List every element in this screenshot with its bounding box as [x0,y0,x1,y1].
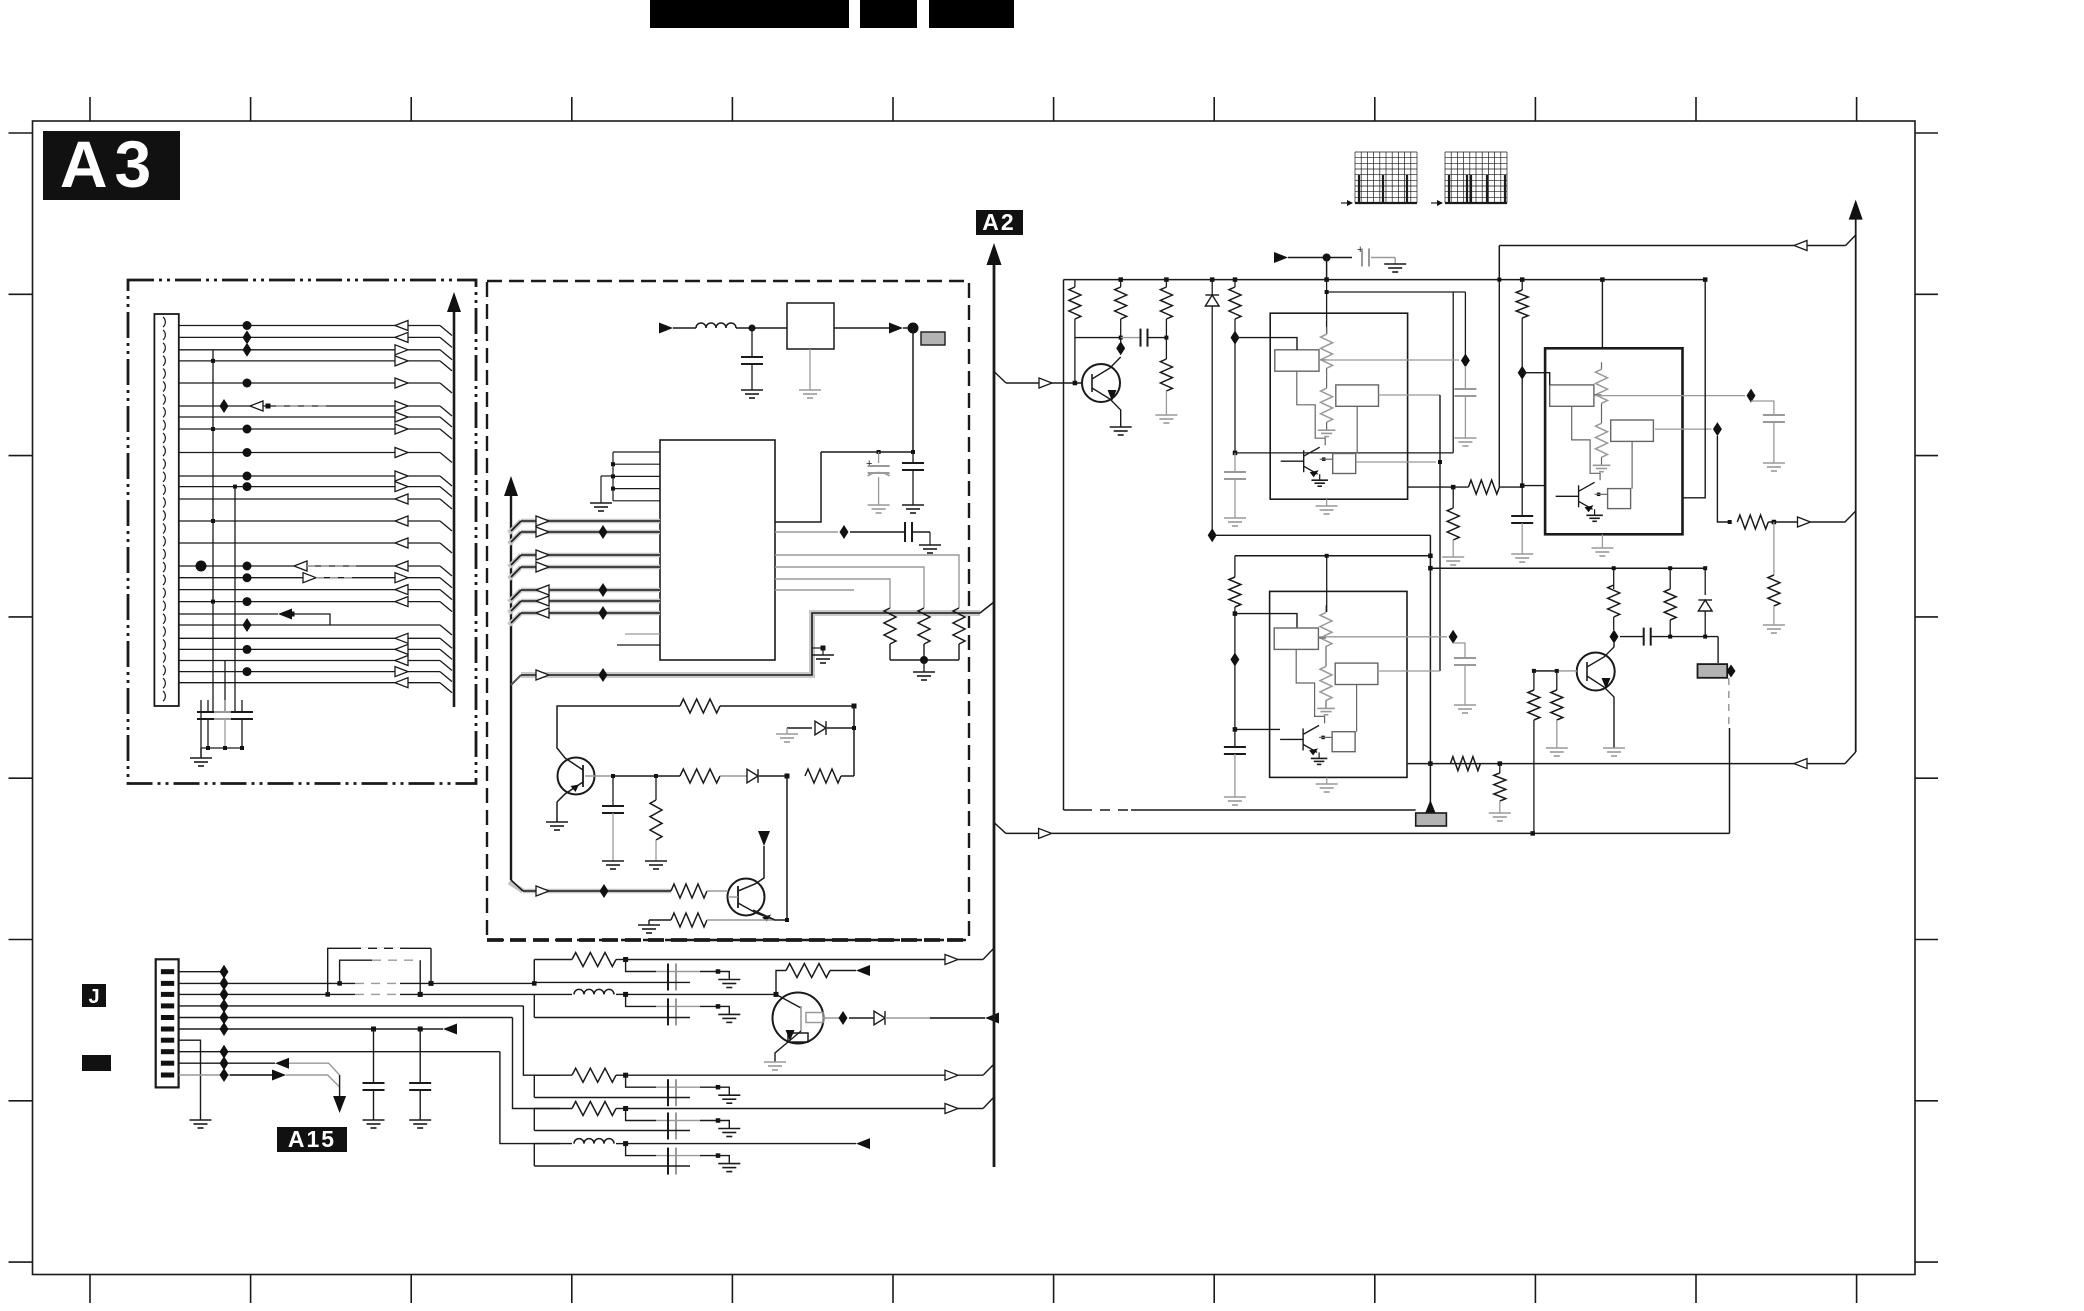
U4 left chain [1234,556,1236,577]
wire (left box) y=476.0 [179,475,440,477]
wire from J1 pin 9 [179,1062,275,1064]
chain x=1235 [1234,319,1236,453]
left box vertical taps [212,350,214,712]
wire rows 15/16 dashed pair [294,561,307,571]
svg-text:A15: A15 [288,1126,336,1152]
rail Q y833 from A2 bus [994,823,1006,834]
electrolytic cap C+ [878,452,880,463]
transistor Q3 (with built-in resistors) [773,993,824,1044]
wire from J1 pin 5 [179,1017,513,1019]
connector P1 [154,314,178,706]
label J [82,984,106,1007]
label A2 [976,210,1023,235]
rail node dots [1118,277,1123,282]
filter rail P y810 [1064,809,1083,811]
vertical from regulator output down [912,328,914,452]
row y636.6 [1610,630,1619,644]
wire (left box) y=337.4 [179,336,440,338]
svg-text:A2: A2 [982,209,1015,235]
wire (left box) y=638.3 [179,637,440,639]
wire from J1 pin 1 [179,971,224,973]
IC block U4 [1270,591,1407,777]
Q1 emitter to ground [556,802,558,822]
wire (left box) y=429.0 [179,428,440,430]
U3 feed from left [1235,338,1297,350]
IC right rows to resistor bank [775,452,821,522]
left signal bus with up arrow [510,490,512,880]
wire (left box) y=360.9 [179,360,440,362]
U4 bottom ground [1326,777,1328,784]
output net label (gray) [921,332,945,345]
wire (left box) y=406.0 [179,405,440,407]
wire to far-right bus (y=245) [1498,246,1500,280]
wire from J1 pin 2 [179,982,535,984]
wire (left box) y=499.0 [179,498,440,500]
wire (left box) y=566.0 [179,565,440,567]
wire row with dashed continuation (row 6) [250,401,263,411]
label A15 [277,1127,347,1152]
gray label G3 [1698,664,1728,678]
IC block U5 (bold) [1545,348,1682,534]
left interconnect box (dash-dot border) [128,280,476,784]
Q3 output diode row [839,1011,848,1025]
wire (IC bus row) y=613 [509,613,521,625]
IC stub lines left bottom [625,633,660,635]
regulator U2 [787,303,834,349]
wire (left box) y=452.5 [179,452,440,454]
cap under L1 [751,328,753,357]
wire (IC bus row) y=532 [509,532,521,544]
IC left pin bracket [613,452,660,501]
U3 outputs right [1319,359,1459,361]
top rail of right section [1064,279,1706,281]
output rail R y763.6 [1408,763,1845,765]
wire (IC bus row) y=555 [509,555,521,567]
svg-text:J: J [88,986,99,1008]
far-right bus B2 [1855,218,1857,752]
diode to ground row [787,727,812,729]
wire (left box) y=521.0 [179,520,440,522]
wire (IC bus row) y=521 [509,521,521,533]
connector J1 (bottom) [156,959,179,1087]
wire (left box) y=383.0 [179,382,440,384]
U5 right-side feed from top rail [1683,280,1706,498]
wire (left box) y=417.0 [179,416,440,418]
RC filter network row y=959.5 [534,959,572,961]
wire (left box) y=325.5 [179,325,440,327]
wire from J1 pin 7 [179,1040,201,1120]
U5 left chain [1521,318,1523,516]
diode from rail (zener) [1211,280,1213,295]
base chain Q1 [585,775,613,777]
wire (left box) y=601.6 [179,601,440,603]
wire from J1 pin 6 [179,1028,443,1030]
middle box (dashed border) [487,281,969,940]
RC filter network row y=1075.2 [534,1074,572,1076]
redacted title bars [650,0,849,28]
label A3 [43,131,180,200]
rail T y568 [1430,567,1705,569]
input arrow into regulator [659,323,673,334]
wire from J1 pin 3 [179,993,535,995]
U4 top rail S [1235,555,1431,557]
U3 output row y487 [1407,486,1468,488]
wire (left box) y=543.0 [179,542,440,544]
wire from J1 pin 8 [179,1051,500,1053]
wire (IC bus row) y=590 [509,590,521,602]
vertical to filter rail P [1063,280,1065,810]
U5 outputs right [1595,395,1745,397]
transistor Q1 [558,758,595,795]
RC filter network row y=1143.6 [534,1143,572,1145]
wire (left box) y=577.7 [179,577,440,579]
wire from J1 pin 10 [179,1074,272,1076]
wire (left box) y=649.4 [179,648,440,650]
wire from J1 pin 4 [179,1005,524,1007]
Q4 input from A2 bus [994,372,1006,384]
waveform scope grid 2 [1445,152,1507,203]
IC block U3 [1270,313,1407,499]
main IC U1 [660,440,775,660]
wire (left box) y=660.5 [179,660,440,662]
RC filter network row y=1108.5 [534,1108,572,1110]
vertical 1430 to gray label G2 [1424,800,1436,815]
wire (left box) y=349.8 [179,349,440,351]
Q5 base chain [1534,670,1577,672]
wire (left box) y=682.7 [179,682,440,684]
twisted-pair bundle indication [328,948,380,994]
Q2 emitter resistor to ground [649,919,671,921]
A2 bus line [993,262,996,1167]
wire (IC bus row) y=601 [509,601,521,613]
top supply arrow + electrolytic cap [1274,252,1288,263]
cap between Q4 collector and R [1121,337,1141,339]
resistors hanging from top rail [1074,280,1076,287]
rail y292 [1327,291,1466,293]
border frame [33,121,1916,1275]
cap + resistor under Q1 base [612,776,614,806]
waveform scope grid 1 [1355,152,1417,203]
svg-text:A3: A3 [60,127,158,201]
svg-text:+: + [866,458,872,470]
redacted small bar [82,1055,111,1071]
lower network under rail T [1613,568,1615,589]
U3 bottom ground [1326,499,1328,506]
wire (left box) y=486.6 [179,486,440,488]
short row with filled arrow (row 614) [179,613,278,615]
wire (IC bus row) y=567 [509,567,521,579]
Q3 collector resistor to arrow [776,971,786,995]
connector J1 pins [161,969,174,1077]
inductor L1 [696,323,736,328]
transistor Q2 [728,879,765,916]
wire (left box) y=625.0 [179,624,440,626]
U5 bottom ground [1601,534,1603,548]
U4 outputs right [1319,636,1447,638]
wire (left box) y=671.6 [179,671,440,673]
horizontal y535 to vertical 1430 [1429,535,1431,807]
transistor Q5 [1577,653,1615,691]
wire (left box) y=589.6 [179,589,440,591]
bus arrow (left box) [453,304,456,707]
decoupling caps bottom of left box [207,700,209,712]
under-IC thick gray channel [521,613,980,675]
RC filter network row y=994.4 [534,993,572,995]
transistor Q4 [1082,364,1120,402]
cap beside [912,452,914,463]
